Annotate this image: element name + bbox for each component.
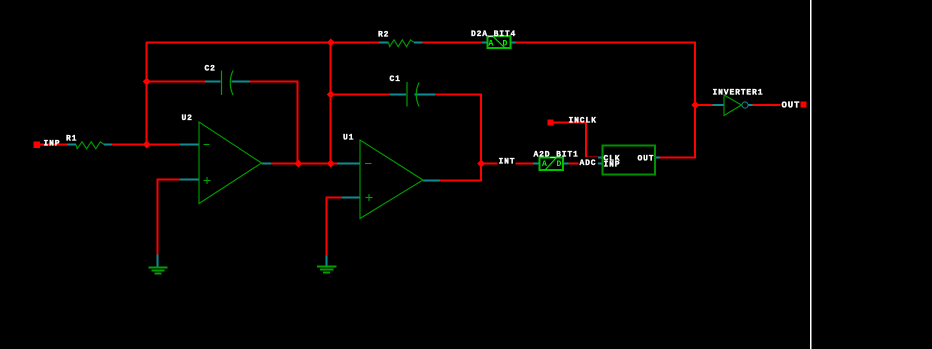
svg-text:A: A [489, 40, 495, 49]
svg-text:C2: C2 [205, 65, 216, 74]
svg-text:R2: R2 [378, 31, 389, 40]
svg-text:OUT: OUT [638, 155, 655, 164]
svg-text:INVERTER1: INVERTER1 [713, 89, 764, 98]
svg-text:D: D [503, 40, 509, 49]
svg-text:OUT: OUT [782, 101, 801, 111]
svg-text:A: A [542, 160, 548, 169]
svg-text:INP: INP [604, 161, 621, 170]
svg-text:D2A_BIT4: D2A_BIT4 [471, 30, 516, 39]
svg-text:INP: INP [44, 140, 61, 149]
svg-text:U2: U2 [182, 114, 193, 123]
svg-text:INT: INT [499, 158, 516, 167]
svg-text:A2D_BIT1: A2D_BIT1 [534, 151, 579, 160]
svg-text:ADC: ADC [580, 159, 597, 168]
svg-text:R1: R1 [66, 135, 77, 144]
svg-text:U1: U1 [343, 134, 354, 143]
svg-text:D: D [557, 160, 563, 169]
svg-text:INCLK: INCLK [569, 117, 597, 126]
svg-text:C1: C1 [390, 75, 401, 84]
